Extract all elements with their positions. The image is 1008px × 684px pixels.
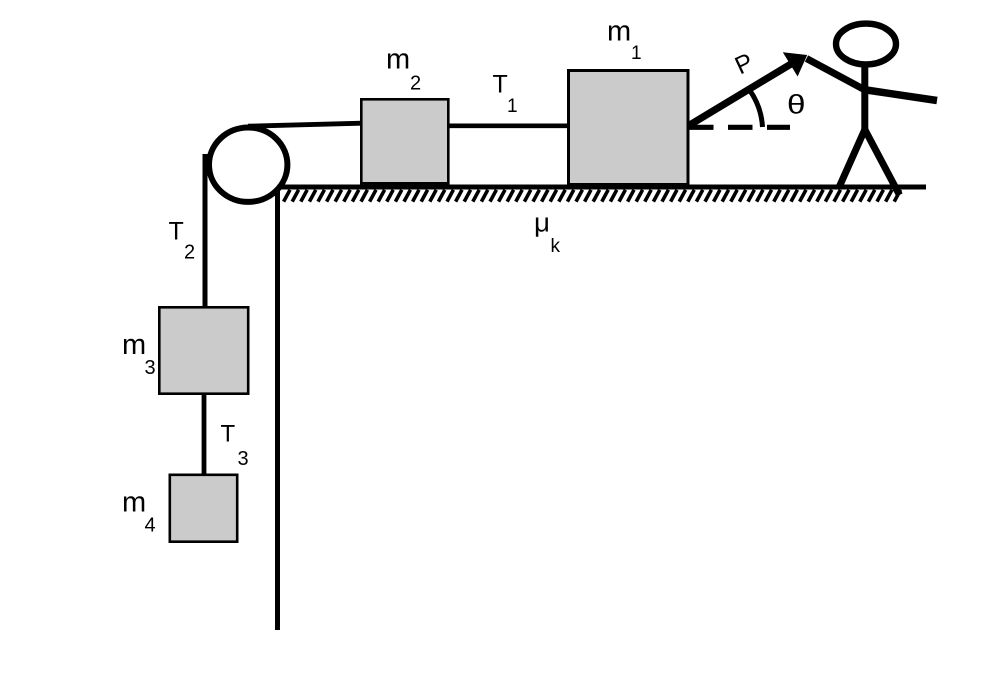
block m2 bbox=[361, 99, 448, 183]
rope T2 segment (pulley to block m3) bbox=[203, 154, 208, 308]
pulley bbox=[209, 128, 287, 202]
svg-text:3: 3 bbox=[238, 448, 249, 470]
svg-text:P: P bbox=[731, 48, 758, 80]
svg-text:2: 2 bbox=[410, 73, 421, 95]
svg-text:T: T bbox=[493, 71, 508, 99]
svg-text:μ: μ bbox=[534, 208, 550, 238]
svg-text:k: k bbox=[551, 236, 561, 257]
block m4 bbox=[170, 475, 237, 542]
block m3 bbox=[159, 307, 248, 393]
stick figure left arm bbox=[807, 59, 867, 91]
table hatching bbox=[284, 190, 901, 202]
svg-text:m: m bbox=[122, 486, 146, 518]
rope T1 between m2 and m1 bbox=[448, 124, 569, 129]
svg-text:θ: θ bbox=[787, 90, 806, 120]
dashed horizontal reference line bbox=[689, 125, 790, 130]
rope hanging from pulley right side bbox=[275, 185, 280, 630]
stick figure right leg bbox=[864, 128, 900, 195]
force arrow P head bbox=[783, 52, 807, 76]
svg-text:4: 4 bbox=[145, 514, 156, 536]
rope from pulley top to block m2 bbox=[248, 123, 362, 126]
force arrow P shaft bbox=[689, 64, 792, 126]
rope T3 between m3 and m4 bbox=[202, 393, 207, 475]
svg-text:m: m bbox=[122, 329, 146, 361]
stick figure left leg bbox=[839, 128, 866, 189]
svg-text:3: 3 bbox=[145, 357, 156, 379]
svg-text:m: m bbox=[386, 44, 410, 76]
svg-text:2: 2 bbox=[184, 242, 195, 264]
svg-text:T: T bbox=[221, 421, 236, 448]
angle arc bbox=[750, 90, 763, 127]
stick figure right arm bbox=[863, 90, 937, 101]
svg-text:1: 1 bbox=[631, 43, 642, 64]
svg-text:T: T bbox=[169, 218, 184, 246]
svg-text:m: m bbox=[607, 15, 631, 47]
svg-text:1: 1 bbox=[507, 96, 518, 117]
stick figure head bbox=[836, 24, 896, 65]
table surface line bbox=[278, 185, 926, 190]
block m1 bbox=[569, 71, 689, 185]
stick figure body bbox=[861, 64, 868, 131]
